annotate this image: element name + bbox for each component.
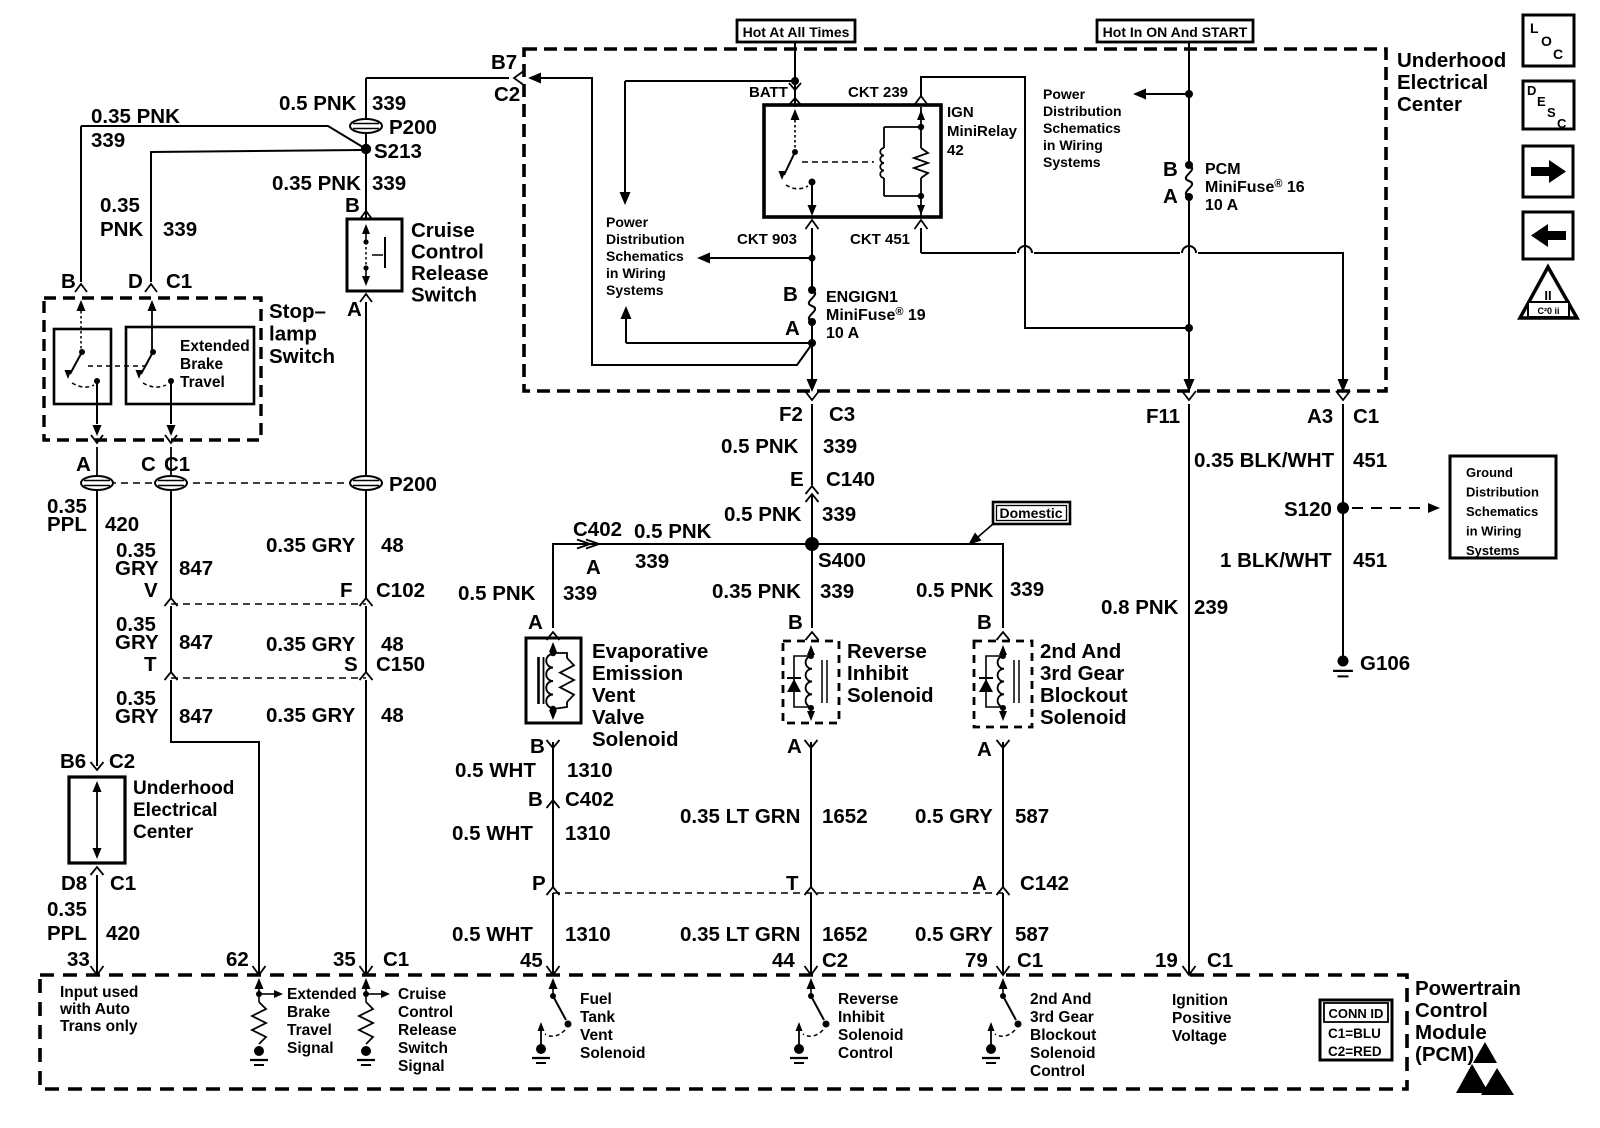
relay coil inductor bbox=[883, 127, 885, 148]
svg-text:L: L bbox=[1530, 20, 1539, 36]
wire CKT 451 to A3 C1 bbox=[920, 228, 922, 253]
svg-text:C2: C2 bbox=[822, 949, 848, 972]
svg-text:Extended: Extended bbox=[180, 338, 250, 355]
wire CKT 239 to PCM minifuse branch bbox=[921, 77, 1189, 328]
svg-text:0.5 WHT: 0.5 WHT bbox=[452, 822, 533, 845]
svg-text:Schematics: Schematics bbox=[1043, 120, 1121, 136]
wire branch S213 to stop-lamp B pin bbox=[81, 126, 366, 149]
svg-text:Vent: Vent bbox=[580, 1027, 613, 1044]
svg-text:C3: C3 bbox=[829, 403, 855, 426]
inline connector C142 dashed line bbox=[553, 892, 1003, 894]
svg-text:in Wiring: in Wiring bbox=[1043, 137, 1103, 153]
svg-text:0.8 PNK: 0.8 PNK bbox=[1101, 596, 1179, 619]
svg-text:Solenoid: Solenoid bbox=[592, 728, 679, 751]
connector at D pin bbox=[145, 284, 157, 292]
svg-text:PNK: PNK bbox=[100, 218, 143, 241]
svg-text:Release: Release bbox=[398, 1022, 457, 1039]
connector at reverse B pin bbox=[806, 632, 819, 640]
svg-text:Control: Control bbox=[1415, 999, 1488, 1022]
svg-text:C1: C1 bbox=[383, 948, 409, 971]
svg-text:10 A: 10 A bbox=[826, 325, 860, 342]
connector at A pin below stop-lamp bbox=[91, 435, 103, 443]
svg-text:Reverse: Reverse bbox=[838, 991, 899, 1008]
svg-text:451: 451 bbox=[1353, 549, 1387, 572]
svg-text:Control: Control bbox=[398, 1004, 453, 1021]
svg-text:B: B bbox=[788, 611, 803, 634]
svg-text:PPL: PPL bbox=[47, 922, 87, 945]
svg-text:A: A bbox=[785, 317, 800, 340]
svg-text:Hot At All Times: Hot At All Times bbox=[743, 24, 850, 40]
svg-text:2nd And: 2nd And bbox=[1030, 991, 1091, 1008]
wire BATT feed from Hot At All Times bbox=[794, 42, 796, 107]
svg-text:Underhood: Underhood bbox=[133, 778, 234, 799]
wire BATT junction branch to power distribution arrow bbox=[625, 80, 795, 82]
svg-text:G106: G106 bbox=[1360, 652, 1410, 675]
wire branch S213 to stop-lamp D pin bbox=[151, 150, 362, 282]
connector at PCM pin 45 bbox=[547, 966, 560, 975]
svg-text:Ground: Ground bbox=[1466, 465, 1513, 480]
svg-text:A: A bbox=[787, 735, 802, 758]
connector at reverse A pin bbox=[805, 740, 818, 748]
svg-text:MiniRelay: MiniRelay bbox=[947, 123, 1018, 140]
svg-text:Electrical: Electrical bbox=[1397, 71, 1488, 94]
svg-text:F11: F11 bbox=[1146, 405, 1180, 428]
svg-text:0.5 WHT: 0.5 WHT bbox=[455, 759, 536, 782]
svg-text:Electrical: Electrical bbox=[133, 800, 218, 821]
svg-text:MiniFuse® 16: MiniFuse® 16 bbox=[1205, 178, 1305, 196]
svg-text:IGN: IGN bbox=[947, 104, 974, 121]
relay coil resistor bbox=[914, 148, 928, 178]
svg-text:0.35 LT GRN: 0.35 LT GRN bbox=[680, 805, 800, 828]
svg-text:339: 339 bbox=[372, 172, 406, 195]
svg-text:Vent: Vent bbox=[592, 684, 635, 707]
relay pin CKT 451 bbox=[920, 196, 922, 217]
svg-text:Signal: Signal bbox=[398, 1058, 445, 1075]
connector at CKT 239 pin bbox=[915, 96, 927, 104]
ground distribution schematics box bbox=[1450, 456, 1556, 558]
svg-text:Distribution: Distribution bbox=[1466, 485, 1539, 500]
svg-text:C2: C2 bbox=[109, 750, 135, 773]
svg-text:Tank: Tank bbox=[580, 1009, 615, 1026]
svg-text:0.35 BLK/WHT: 0.35 BLK/WHT bbox=[1194, 449, 1335, 472]
svg-text:0.5 PNK: 0.5 PNK bbox=[458, 582, 536, 605]
svg-text:GRY: GRY bbox=[115, 557, 159, 580]
wire evap B to PCM pin 45 bbox=[552, 742, 554, 887]
svg-text:0.5 GRY: 0.5 GRY bbox=[915, 923, 993, 946]
svg-text:339: 339 bbox=[820, 580, 854, 603]
relay switch common pin bbox=[791, 109, 800, 120]
junction of ENGIGN1 output bbox=[811, 322, 813, 382]
callout domestic bbox=[993, 502, 1070, 524]
wire 0.35 GRY 847 from C150 to PCM pin 62 bbox=[171, 680, 259, 975]
wire 0.5 PNK 339 F2 to C140 bbox=[811, 404, 813, 485]
connector F2 C3 bbox=[805, 391, 819, 400]
connector below relay CKT 903 bbox=[806, 220, 819, 229]
svg-text:Travel: Travel bbox=[287, 1022, 332, 1039]
svg-text:Trans only: Trans only bbox=[60, 1018, 138, 1035]
svg-text:A: A bbox=[76, 453, 91, 476]
svg-text:A: A bbox=[528, 611, 543, 634]
svg-text:Travel: Travel bbox=[180, 374, 225, 391]
svg-text:S213: S213 bbox=[374, 140, 422, 163]
svg-text:A: A bbox=[586, 556, 601, 579]
stop-lamp right switch internals bbox=[148, 300, 157, 311]
connector at 2nd-3rd A pin bbox=[997, 740, 1010, 748]
hot-at-all-times feed box bbox=[737, 20, 855, 42]
connector P200 dashed interconnect line bbox=[97, 482, 385, 484]
svg-text:T: T bbox=[786, 872, 799, 895]
connector at cruise switch B pin bbox=[360, 211, 372, 219]
esd symbol large bbox=[1456, 1064, 1489, 1093]
relay pin CKT 239 bbox=[920, 107, 922, 127]
svg-text:Switch: Switch bbox=[398, 1040, 448, 1057]
fuse PCM MiniFuse 16 10A bbox=[1185, 161, 1193, 169]
connector B6 C2 bbox=[91, 762, 104, 770]
conn id legend box bbox=[1320, 1000, 1392, 1060]
svg-text:ENGIGN1: ENGIGN1 bbox=[826, 289, 898, 306]
relay switch travel dashed arc bbox=[786, 185, 808, 189]
svg-text:Distribution: Distribution bbox=[1043, 103, 1122, 119]
svg-text:0.5 PNK: 0.5 PNK bbox=[634, 520, 712, 543]
svg-text:C2: C2 bbox=[494, 83, 520, 106]
svg-text:Distribution: Distribution bbox=[606, 231, 685, 247]
svg-text:Underhood: Underhood bbox=[1397, 49, 1506, 72]
inline connector B C402 bbox=[547, 800, 560, 808]
powertrain control module dashed box bbox=[40, 975, 1407, 1089]
svg-text:Blockout: Blockout bbox=[1030, 1027, 1096, 1044]
wire F11 to PCM pin 19 ignition positive voltage bbox=[1188, 404, 1190, 975]
svg-text:C1: C1 bbox=[1207, 949, 1233, 972]
svg-text:B: B bbox=[345, 194, 360, 217]
svg-text:339: 339 bbox=[822, 503, 856, 526]
svg-text:847: 847 bbox=[179, 631, 213, 654]
pcm driver at pin x=553 bbox=[549, 978, 558, 989]
svg-text:C1: C1 bbox=[166, 270, 192, 293]
svg-text:F2: F2 bbox=[779, 403, 803, 426]
connector F at C102 bbox=[360, 598, 373, 606]
svg-text:Evaporative: Evaporative bbox=[592, 640, 708, 663]
connector at 2nd-3rd B pin bbox=[997, 632, 1010, 640]
svg-text:F: F bbox=[340, 579, 353, 602]
svg-text:0.35 GRY: 0.35 GRY bbox=[266, 704, 356, 727]
svg-text:0.5 PNK: 0.5 PNK bbox=[279, 92, 357, 115]
svg-text:339: 339 bbox=[372, 92, 406, 115]
svg-text:A3: A3 bbox=[1307, 405, 1333, 428]
svg-text:CONN ID: CONN ID bbox=[1329, 1006, 1384, 1021]
svg-text:B6: B6 bbox=[60, 750, 86, 773]
esd symbol small bbox=[1473, 1042, 1497, 1063]
wire Hot In ON And START to PCM minifuse bbox=[1188, 42, 1190, 165]
wire PCM fuse output to F11 bbox=[1188, 197, 1190, 382]
svg-text:0.35 PNK: 0.35 PNK bbox=[712, 580, 801, 603]
svg-text:S400: S400 bbox=[818, 549, 866, 572]
svg-text:339: 339 bbox=[91, 129, 125, 152]
relay switch blade bbox=[784, 152, 795, 175]
svg-text:in Wiring: in Wiring bbox=[1466, 524, 1522, 539]
svg-text:C1: C1 bbox=[164, 453, 190, 476]
connector V at C102 bbox=[165, 598, 178, 606]
svg-text:D8: D8 bbox=[61, 872, 87, 895]
connector at evap A pin bbox=[547, 632, 560, 640]
grommet P200 wire A bbox=[96, 447, 98, 490]
connector A at C142 line bbox=[997, 887, 1010, 895]
wire 2nd-3rd A to PCM pin 79 bbox=[1002, 742, 1004, 887]
relay coil top rail bbox=[884, 126, 921, 128]
svg-text:Valve: Valve bbox=[592, 706, 644, 729]
svg-text:C1: C1 bbox=[1017, 949, 1043, 972]
svg-text:C402: C402 bbox=[573, 518, 622, 541]
svg-text:Cruise: Cruise bbox=[398, 986, 447, 1003]
svg-text:Release: Release bbox=[411, 262, 489, 285]
evap solenoid internals bbox=[549, 642, 557, 652]
svg-text:Voltage: Voltage bbox=[1172, 1028, 1227, 1045]
stop-lamp switch right contact box (extended brake travel) bbox=[126, 327, 254, 404]
connector S at C150 bbox=[360, 672, 373, 680]
icon LOC button bbox=[1523, 15, 1574, 66]
icon DESC button bbox=[1523, 81, 1574, 129]
relay linkage dashed line bbox=[802, 161, 874, 163]
svg-text:0.35 GRY: 0.35 GRY bbox=[266, 534, 356, 557]
svg-text:E: E bbox=[1537, 94, 1546, 109]
svg-text:D: D bbox=[128, 270, 143, 293]
svg-text:Cruise: Cruise bbox=[411, 219, 475, 242]
connector at PCM pin 62 bbox=[253, 966, 266, 975]
connector at evap B pin bbox=[547, 740, 560, 748]
svg-text:V: V bbox=[144, 579, 158, 602]
connector at cruise switch A pin bbox=[360, 294, 372, 302]
svg-text:B7: B7 bbox=[491, 51, 517, 74]
wire S120 to G106 bbox=[1342, 508, 1344, 658]
svg-text:T: T bbox=[144, 653, 157, 676]
svg-text:Systems: Systems bbox=[1043, 154, 1101, 170]
pcm driver at pin x=1003 bbox=[999, 978, 1008, 989]
svg-text:Schematics: Schematics bbox=[606, 248, 684, 264]
svg-text:3rd Gear: 3rd Gear bbox=[1030, 1009, 1094, 1026]
svg-text:C: C bbox=[141, 453, 156, 476]
splice S120 bbox=[1337, 502, 1349, 514]
svg-text:Solenoid: Solenoid bbox=[847, 684, 934, 707]
svg-text:C²0 ii: C²0 ii bbox=[1537, 306, 1559, 316]
svg-text:Systems: Systems bbox=[606, 282, 664, 298]
pcm input resistor at pin x=259 bbox=[255, 978, 264, 989]
svg-text:lamp: lamp bbox=[269, 323, 317, 346]
svg-text:339: 339 bbox=[823, 435, 857, 458]
svg-text:0.5 PNK: 0.5 PNK bbox=[724, 503, 802, 526]
svg-text:3rd Gear: 3rd Gear bbox=[1040, 662, 1124, 685]
wire S400 right branch to 2nd-3rd solenoid bbox=[817, 544, 1003, 628]
svg-text:Domestic: Domestic bbox=[999, 505, 1062, 521]
svg-text:C1=BLU: C1=BLU bbox=[1328, 1026, 1381, 1041]
wire 0.35 GRY 847 from C102 to C150 bbox=[170, 606, 172, 672]
svg-text:C2=RED: C2=RED bbox=[1328, 1044, 1382, 1059]
svg-text:Switch: Switch bbox=[269, 345, 335, 368]
svg-text:B: B bbox=[783, 283, 798, 306]
svg-text:with Auto: with Auto bbox=[59, 1001, 130, 1018]
svg-text:GRY: GRY bbox=[115, 705, 159, 728]
svg-text:II: II bbox=[1544, 288, 1551, 303]
relay switch output contact bbox=[809, 179, 816, 186]
pcm driver at pin x=811 bbox=[807, 978, 816, 989]
svg-text:C1: C1 bbox=[1353, 405, 1379, 428]
wire S400 left branch to evap solenoid bbox=[553, 544, 806, 628]
wire cruise switch to P200 bbox=[365, 302, 367, 478]
svg-text:C150: C150 bbox=[376, 653, 425, 676]
solenoid 2nd and 3rd gear blockout dashed box bbox=[974, 641, 1032, 727]
svg-text:Emission: Emission bbox=[592, 662, 683, 685]
svg-text:A: A bbox=[1163, 185, 1178, 208]
svg-text:1310: 1310 bbox=[567, 759, 613, 782]
wire branch to power distribution arrow (up) bbox=[626, 342, 812, 344]
svg-text:0.5 PNK: 0.5 PNK bbox=[721, 435, 799, 458]
svg-text:0.35: 0.35 bbox=[100, 194, 140, 217]
connector P at C142 line bbox=[547, 887, 560, 895]
svg-text:BATT: BATT bbox=[749, 84, 788, 101]
wire 0.5 PNK 339 down to P200 and S213 bbox=[365, 78, 367, 219]
wire 0.35 PPL 420 to PCM pin 33 bbox=[96, 875, 98, 975]
connector D8 C1 bbox=[91, 867, 104, 875]
svg-text:0.5 WHT: 0.5 WHT bbox=[452, 923, 533, 946]
svg-text:Brake: Brake bbox=[180, 356, 223, 373]
svg-text:Control: Control bbox=[1030, 1063, 1085, 1080]
connector T at C150 bbox=[165, 672, 178, 680]
svg-text:1652: 1652 bbox=[822, 923, 868, 946]
svg-text:587: 587 bbox=[1015, 923, 1049, 946]
svg-text:0.35 GRY: 0.35 GRY bbox=[266, 633, 356, 656]
svg-text:Hot In ON And START: Hot In ON And START bbox=[1103, 24, 1248, 40]
svg-text:Input used: Input used bbox=[60, 984, 138, 1001]
svg-text:S: S bbox=[1547, 105, 1556, 120]
svg-text:Control: Control bbox=[411, 241, 484, 264]
svg-text:587: 587 bbox=[1015, 805, 1049, 828]
reverse inhibit internals bbox=[807, 645, 815, 655]
svg-text:Module: Module bbox=[1415, 1021, 1487, 1044]
svg-text:P200: P200 bbox=[389, 116, 437, 139]
svg-text:Powertrain: Powertrain bbox=[1415, 977, 1521, 1000]
grommet P200 wire cruise bbox=[350, 476, 382, 490]
svg-text:C: C bbox=[1557, 116, 1567, 131]
svg-text:339: 339 bbox=[1010, 578, 1044, 601]
relay coil bottom rail bbox=[884, 195, 921, 197]
svg-text:0.35 LT GRN: 0.35 LT GRN bbox=[680, 923, 800, 946]
svg-text:A: A bbox=[347, 298, 362, 321]
svg-text:C402: C402 bbox=[565, 788, 614, 811]
cruise switch internals bbox=[362, 224, 370, 234]
svg-text:(PCM): (PCM) bbox=[1415, 1043, 1474, 1066]
svg-text:P200: P200 bbox=[389, 473, 437, 496]
svg-text:1 BLK/WHT: 1 BLK/WHT bbox=[1220, 549, 1332, 572]
svg-text:44: 44 bbox=[772, 949, 795, 972]
wire A3 C1 to S120 bbox=[1342, 404, 1344, 508]
svg-text:1310: 1310 bbox=[565, 923, 611, 946]
connector at PCM pin 44 bbox=[805, 966, 818, 975]
svg-text:0.35 PNK: 0.35 PNK bbox=[91, 105, 180, 128]
connector at PCM pin 79 bbox=[997, 966, 1010, 975]
svg-text:420: 420 bbox=[106, 922, 140, 945]
svg-text:Positive: Positive bbox=[1172, 1010, 1232, 1027]
svg-text:2nd And: 2nd And bbox=[1040, 640, 1121, 663]
svg-text:E: E bbox=[790, 468, 804, 491]
svg-text:Schematics: Schematics bbox=[1466, 504, 1538, 519]
solenoid reverse inhibit dashed box bbox=[783, 641, 839, 723]
wire 0.35 GRY 847 from P200 to C102 bbox=[170, 490, 172, 598]
svg-text:PCM: PCM bbox=[1205, 161, 1241, 178]
svg-text:Switch: Switch bbox=[411, 284, 477, 307]
svg-text:48: 48 bbox=[381, 633, 404, 656]
svg-text:0.35 PNK: 0.35 PNK bbox=[272, 172, 361, 195]
connector at B pin bbox=[75, 284, 87, 292]
svg-text:B: B bbox=[530, 735, 545, 758]
inline connector C402 on branch bbox=[577, 540, 590, 549]
svg-text:339: 339 bbox=[163, 218, 197, 241]
svg-text:Power: Power bbox=[1043, 86, 1086, 102]
svg-text:B: B bbox=[977, 611, 992, 634]
splice S400 bbox=[805, 537, 819, 551]
stop-lamp switch dashed box bbox=[44, 298, 261, 440]
svg-text:1652: 1652 bbox=[822, 805, 868, 828]
svg-text:P: P bbox=[532, 872, 546, 895]
svg-text:Solenoid: Solenoid bbox=[1040, 706, 1127, 729]
stop-lamp mechanical linkage dashed bbox=[88, 365, 146, 367]
svg-text:CKT 903: CKT 903 bbox=[737, 231, 797, 248]
svg-text:O: O bbox=[1541, 33, 1552, 49]
svg-text:Blockout: Blockout bbox=[1040, 684, 1128, 707]
svg-text:847: 847 bbox=[179, 705, 213, 728]
grommet P200 top bbox=[350, 119, 382, 133]
svg-text:45: 45 bbox=[520, 949, 543, 972]
svg-text:79: 79 bbox=[965, 949, 988, 972]
svg-text:CKT 239: CKT 239 bbox=[848, 84, 908, 101]
hot-in-on-and-start feed box bbox=[1097, 20, 1253, 42]
svg-text:Ignition: Ignition bbox=[1172, 992, 1228, 1009]
icon back arrow button bbox=[1523, 212, 1573, 259]
svg-text:Signal: Signal bbox=[287, 1040, 334, 1057]
svg-text:D: D bbox=[1527, 83, 1536, 98]
svg-text:C: C bbox=[1553, 46, 1563, 62]
inline connector E C140 bbox=[806, 486, 819, 494]
svg-text:0.5 GRY: 0.5 GRY bbox=[915, 805, 993, 828]
svg-text:PPL: PPL bbox=[47, 513, 87, 536]
svg-text:in Wiring: in Wiring bbox=[606, 265, 666, 281]
svg-text:35: 35 bbox=[333, 948, 356, 971]
svg-text:451: 451 bbox=[1353, 449, 1387, 472]
connector B7 C2 bbox=[514, 72, 523, 85]
svg-text:Brake: Brake bbox=[287, 1004, 330, 1021]
connector at PCM pin 19 bbox=[1183, 966, 1196, 975]
connector symbol at BATT pin bbox=[789, 83, 801, 90]
svg-text:339: 339 bbox=[635, 550, 669, 573]
svg-text:42: 42 bbox=[947, 142, 964, 159]
svg-text:0.35: 0.35 bbox=[47, 898, 87, 921]
ground G106 bbox=[1338, 656, 1349, 667]
wire S400 middle branch to reverse inhibit bbox=[811, 549, 813, 628]
svg-text:339: 339 bbox=[563, 582, 597, 605]
connector below relay CKT 451 bbox=[915, 220, 928, 229]
icon caution triangle bbox=[1520, 267, 1577, 318]
connector A3 C1 bbox=[1336, 391, 1350, 400]
grommet P200 wire C bbox=[170, 447, 172, 490]
svg-text:33: 33 bbox=[67, 948, 90, 971]
underhood electrical center pass-through box bbox=[69, 777, 125, 863]
arrow reference to power distribution schematics (CKT903) bbox=[702, 257, 812, 259]
svg-text:C1: C1 bbox=[110, 872, 136, 895]
inline connector C102 dashed line bbox=[171, 603, 366, 605]
svg-text:19: 19 bbox=[1155, 949, 1178, 972]
svg-text:Power: Power bbox=[606, 214, 649, 230]
wire 0.5 PNK 339 C140 to S400 bbox=[811, 494, 813, 544]
svg-text:62: 62 bbox=[226, 948, 249, 971]
svg-text:Solenoid: Solenoid bbox=[580, 1045, 645, 1062]
svg-text:B: B bbox=[61, 270, 76, 293]
